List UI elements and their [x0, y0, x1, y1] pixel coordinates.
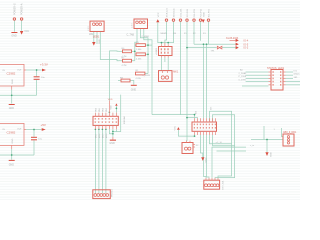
svg-text:F11-P21: F11-P21: [194, 8, 196, 17]
svg-text:GND: GND: [131, 89, 137, 92]
svg-text:0_D3W: 0_D3W: [239, 79, 247, 81]
svg-text:POWER-G: POWER-G: [13, 3, 16, 15]
svg-text:POWER-A: POWER-A: [21, 3, 24, 15]
svg-text:2_DW8: 2_DW8: [143, 75, 151, 77]
svg-text:GND: GND: [9, 164, 15, 167]
svg-text:4.03k: 4.03k: [136, 78, 142, 80]
svg-text:PROG1: PROG1: [111, 189, 113, 197]
svg-text:GND1: GND1: [294, 74, 301, 76]
svg-text:VCC: VCC: [174, 125, 176, 130]
svg-text:GND: GND: [11, 35, 17, 38]
svg-text:+GND1: +GND1: [156, 47, 158, 55]
svg-text:STATUS_LED1: STATUS_LED1: [267, 67, 285, 70]
svg-text:IO3-P41: IO3-P41: [187, 8, 189, 17]
svg-text:C2982: C2982: [7, 72, 16, 76]
svg-text:IO-3: IO-3: [244, 47, 249, 50]
svg-text:31-05-2023: 31-05-2023: [226, 37, 239, 40]
svg-text:+3.3V: +3.3V: [40, 63, 48, 67]
svg-text:GND: GND: [12, 79, 14, 84]
svg-text:GND: GND: [270, 152, 272, 157]
svg-text:SCK-121: SCK-121: [167, 8, 169, 18]
svg-text:GND: GND: [12, 138, 14, 143]
svg-text:+5V: +5V: [41, 123, 46, 127]
svg-text:OUT: OUT: [17, 70, 22, 72]
svg-text:GND: GND: [9, 107, 15, 110]
svg-text:C_TAB: C_TAB: [127, 33, 135, 36]
svg-text:CS1-101: CS1-101: [181, 8, 183, 17]
svg-text:SDO-111: SDO-111: [174, 8, 176, 18]
svg-text:MEM5: MEM5: [161, 33, 168, 35]
svg-text:4.03k: 4.03k: [136, 59, 142, 61]
svg-text:VDD: VDD: [111, 105, 113, 110]
svg-text:LED1: LED1: [93, 34, 100, 38]
svg-text:GND: GND: [205, 157, 207, 162]
svg-text:4.7M: 4.7M: [122, 65, 127, 67]
svg-text:VDD: VDD: [108, 99, 113, 101]
svg-text:MK1: MK1: [173, 71, 179, 74]
svg-text:OUT: OUT: [17, 129, 22, 131]
svg-text:1.04k: 1.04k: [136, 49, 142, 51]
svg-text:GND: GND: [203, 12, 205, 17]
svg-text:uC_16: uC_16: [216, 142, 223, 144]
svg-text:AB#_9_DD1: AB#_9_DD1: [283, 131, 297, 134]
svg-text:GND: GND: [109, 142, 115, 145]
svg-text:C_MEM: C_MEM: [142, 36, 150, 38]
svg-text:MEGA8: MEGA8: [123, 116, 126, 124]
svg-text:IO-4: IO-4: [244, 40, 249, 43]
svg-text:2_ZHA1: 2_ZHA1: [239, 72, 248, 75]
svg-text:F21-P11: F21-P11: [201, 8, 203, 17]
svg-text:IN1-P01: IN1-P01: [209, 8, 211, 17]
svg-text:EXT_IO1: EXT_IO1: [222, 180, 224, 190]
svg-text:C2982: C2982: [7, 131, 16, 135]
svg-text:P_DW8: P_DW8: [239, 76, 247, 78]
svg-text:GND: GND: [99, 39, 101, 44]
svg-text:VCC: VCC: [158, 12, 160, 17]
svg-text:VCC: VCC: [24, 30, 29, 33]
